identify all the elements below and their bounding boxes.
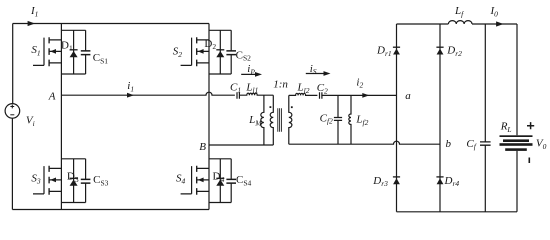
svg-text:S1: S1	[31, 44, 40, 57]
cell frame S1	[61, 30, 85, 74]
diode D1	[61, 30, 78, 74]
svg-text:i2: i2	[356, 76, 363, 89]
transformer secondary winding	[289, 95, 292, 144]
wire: battery branch	[516, 24, 518, 212]
wire: rectifier left leg	[396, 24, 398, 212]
capacitor Cf	[466, 24, 490, 212]
wire: secondary bottom to node b with hop over left rectifier leg	[289, 141, 440, 144]
svg-text:i1: i1	[127, 80, 134, 93]
wire: node B to primary bottom	[209, 144, 273, 146]
arrow i1	[127, 80, 134, 98]
arrow iS	[306, 63, 331, 76]
inductor Lf	[448, 5, 472, 24]
arrow i2	[356, 76, 369, 98]
svg-text:b: b	[446, 138, 452, 150]
svg-text:C2: C2	[317, 82, 328, 95]
svg-text:C1: C1	[230, 81, 241, 94]
transistor S1	[31, 37, 61, 66]
cell frame S2	[209, 30, 231, 74]
diode D4	[213, 159, 225, 203]
svg-text:A: A	[48, 90, 56, 102]
svg-text:S4: S4	[176, 172, 186, 185]
inductor LM (magnetizing)	[248, 95, 264, 145]
svg-text:Cf2: Cf2	[320, 112, 333, 125]
svg-text:Ll1: Ll1	[245, 81, 258, 94]
svg-text:I1: I1	[30, 5, 38, 18]
capacitor CS3	[81, 159, 109, 203]
svg-text:LM: LM	[248, 114, 262, 127]
transformer primary dot	[270, 106, 272, 108]
svg-text:V0: V0	[536, 138, 547, 151]
diode Dr1	[376, 45, 400, 58]
battery RL / V0	[500, 121, 547, 163]
transistor S2	[173, 37, 209, 66]
arrow iP	[241, 63, 262, 77]
svg-text:Ll2: Ll2	[297, 82, 310, 95]
inductor Ll2	[289, 82, 318, 96]
svg-text:a: a	[405, 90, 411, 102]
svg-text:D3: D3	[67, 171, 79, 184]
capacitor CS4	[226, 159, 251, 203]
wire: output top rail left of Lf	[397, 23, 449, 25]
arrow I1 on top rail	[28, 21, 35, 26]
wire: output bottom rail	[397, 211, 518, 213]
svg-text:S3: S3	[31, 172, 41, 185]
svg-text:D2: D2	[204, 38, 216, 51]
svg-text:I0: I0	[490, 5, 499, 18]
wire: input bottom rail	[12, 209, 209, 211]
diode Dr4	[436, 175, 459, 188]
wire: left source branch	[11, 24, 13, 210]
wire: input top rail	[13, 23, 209, 25]
transformer secondary dot	[291, 106, 293, 108]
inductor Lf2	[349, 95, 369, 144]
svg-text:CS2: CS2	[236, 49, 252, 62]
capacitor C1	[230, 81, 241, 98]
cell frame S4	[209, 159, 231, 203]
transformer core	[278, 108, 282, 132]
svg-text:iP: iP	[247, 63, 255, 76]
voltage source Vi	[5, 104, 35, 128]
diode Dr3	[372, 175, 400, 188]
svg-text:Dr1: Dr1	[376, 45, 392, 58]
svg-text:B: B	[199, 141, 206, 153]
capacitor C2	[317, 82, 397, 99]
svg-text:1:n: 1:n	[273, 79, 288, 91]
svg-text:Dr3: Dr3	[372, 175, 388, 188]
svg-text:Cf: Cf	[466, 138, 476, 151]
wire: output top rail right of Lf	[472, 23, 517, 25]
svg-text:Lf2: Lf2	[355, 114, 368, 127]
wire: bridge left leg	[60, 24, 62, 210]
transistor S3	[31, 166, 61, 195]
transistor S4	[176, 166, 209, 195]
wire: node A to C1 with hop over right leg	[61, 92, 235, 95]
diode Dr2	[436, 45, 462, 58]
svg-text:CS1: CS1	[93, 52, 109, 65]
capacitor CS1	[81, 30, 109, 74]
diode D3	[67, 159, 79, 203]
diode D2	[204, 30, 224, 74]
capacitor Cf2	[320, 95, 343, 144]
wire: bridge right leg	[208, 24, 210, 210]
svg-text:RL: RL	[500, 121, 512, 134]
svg-text:Dr4: Dr4	[444, 175, 460, 188]
svg-text:Vi: Vi	[26, 115, 35, 128]
inductor Ll1	[239, 81, 273, 95]
svg-text:Dr2: Dr2	[446, 45, 462, 58]
wire: rectifier right leg	[439, 24, 441, 212]
svg-text:iS: iS	[310, 63, 317, 76]
svg-text:S2: S2	[173, 46, 183, 59]
capacitor CS2	[226, 30, 251, 74]
svg-text:D1: D1	[61, 39, 73, 52]
arrow I0	[490, 5, 504, 27]
svg-text:D4: D4	[213, 171, 225, 184]
transformer primary winding	[270, 95, 273, 145]
svg-text:CS4: CS4	[236, 174, 252, 187]
cell frame S3	[61, 159, 85, 203]
svg-text:Lf: Lf	[454, 5, 464, 18]
svg-text:CS3: CS3	[93, 174, 109, 187]
